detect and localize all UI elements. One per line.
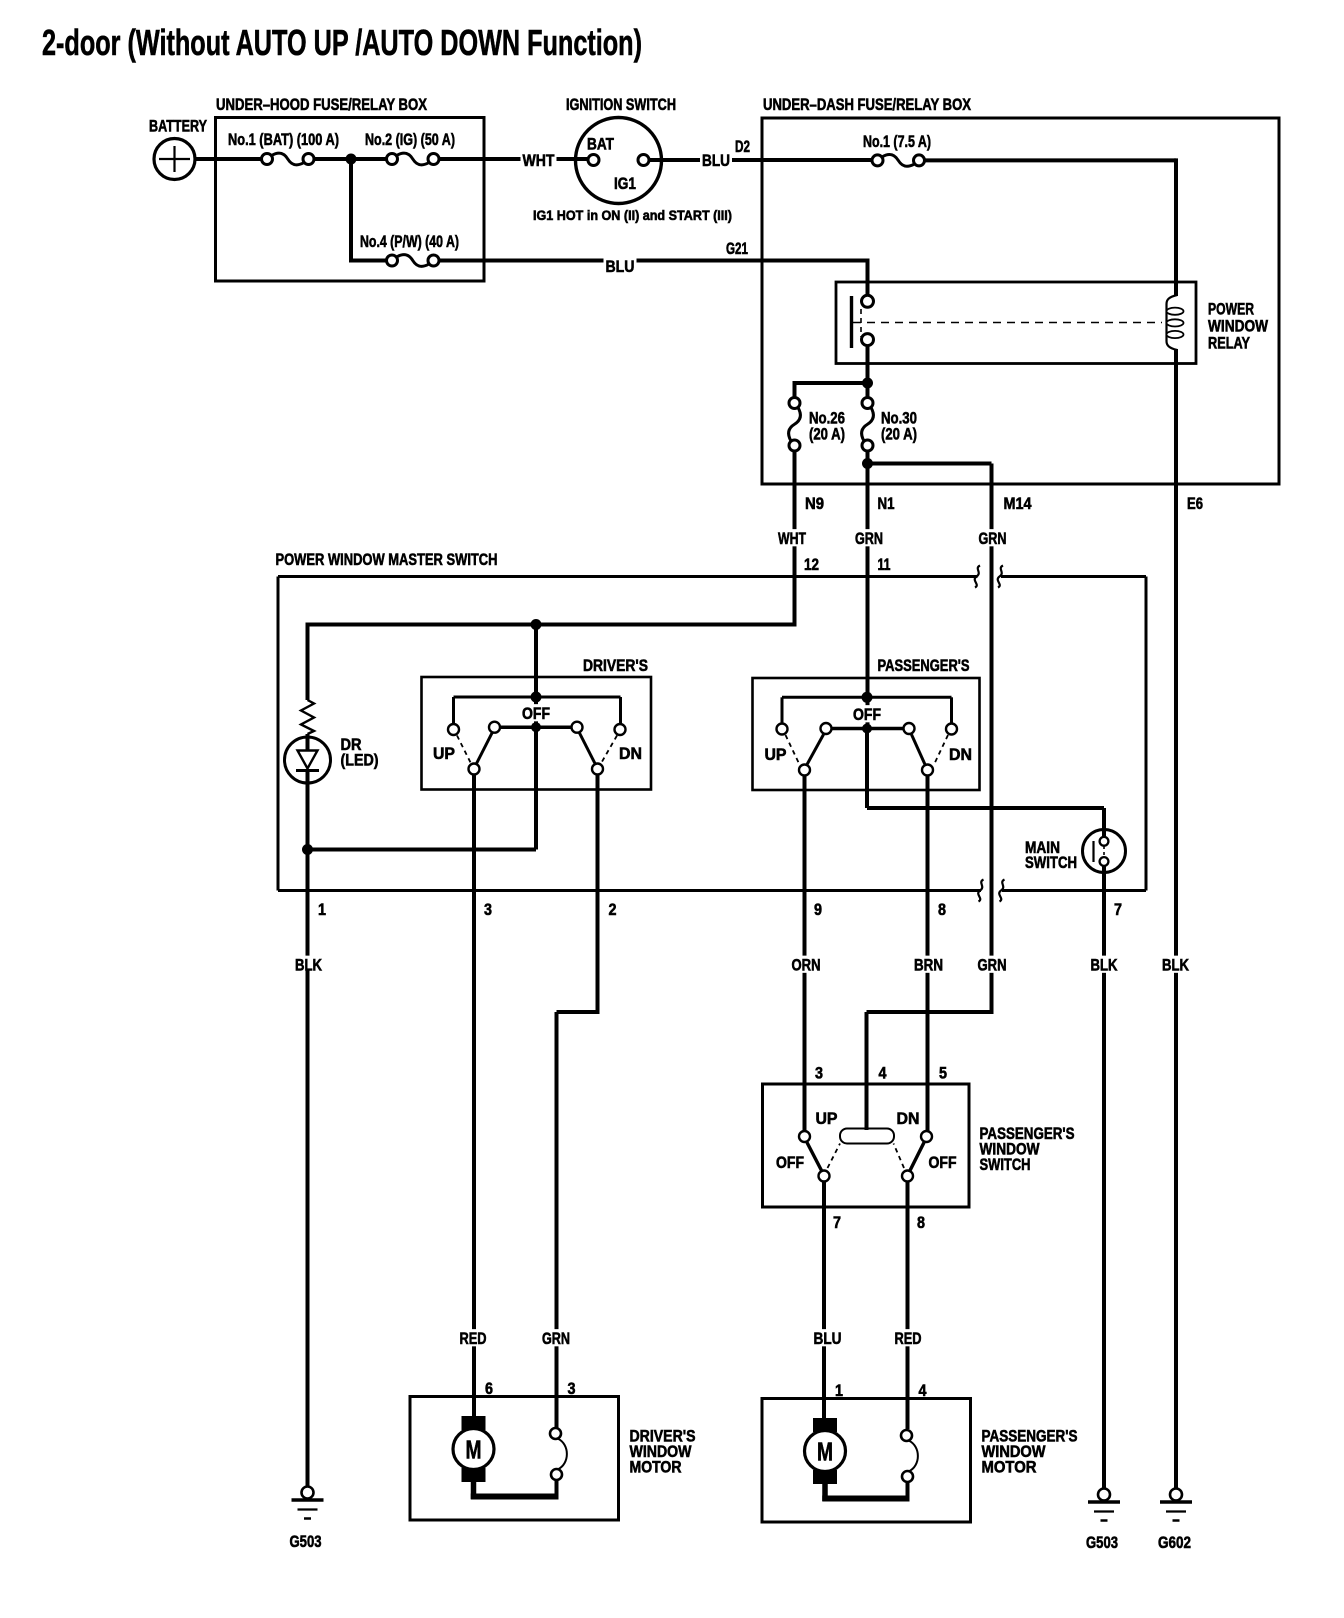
svg-text:4: 4 xyxy=(879,1065,888,1083)
svg-text:POWER WINDOW MASTER SWITCH: POWER WINDOW MASTER SWITCH xyxy=(276,551,498,569)
svg-text:BLK: BLK xyxy=(1091,957,1118,975)
svg-text:OFF: OFF xyxy=(929,1154,957,1172)
svg-text:M14: M14 xyxy=(1004,495,1033,513)
svg-text:SWITCH: SWITCH xyxy=(980,1156,1031,1174)
svg-text:OFF: OFF xyxy=(522,705,550,723)
svg-text:7: 7 xyxy=(1114,901,1122,919)
svg-text:PASSENGER'S: PASSENGER'S xyxy=(878,657,970,675)
svg-text:UNDER–DASH FUSE/RELAY BOX: UNDER–DASH FUSE/RELAY BOX xyxy=(763,96,971,114)
svg-text:G602: G602 xyxy=(1158,1534,1191,1552)
svg-text:DN: DN xyxy=(949,746,972,764)
svg-text:BLK: BLK xyxy=(1162,957,1189,975)
svg-text:UNDER–HOOD FUSE/RELAY BOX: UNDER–HOOD FUSE/RELAY BOX xyxy=(216,96,427,114)
svg-text:E6: E6 xyxy=(1187,495,1203,513)
svg-text:POWER: POWER xyxy=(1208,301,1254,319)
svg-text:(LED): (LED) xyxy=(341,752,379,770)
svg-text:UP: UP xyxy=(765,746,787,764)
svg-text:DN: DN xyxy=(897,1110,920,1128)
svg-text:M: M xyxy=(817,1437,833,1467)
svg-text:GRN: GRN xyxy=(979,530,1007,548)
svg-text:IG1: IG1 xyxy=(614,175,636,193)
svg-text:No.1 (BAT) (100 A): No.1 (BAT) (100 A) xyxy=(228,131,339,149)
svg-text:BAT: BAT xyxy=(587,136,614,154)
svg-text:12: 12 xyxy=(804,556,819,574)
svg-text:2: 2 xyxy=(609,901,617,919)
svg-text:WHT: WHT xyxy=(778,530,806,548)
svg-text:BLU: BLU xyxy=(702,152,730,170)
svg-text:9: 9 xyxy=(814,901,822,919)
svg-text:3: 3 xyxy=(815,1065,823,1083)
svg-text:WHT: WHT xyxy=(523,152,555,170)
svg-text:DRIVER'S: DRIVER'S xyxy=(583,657,648,675)
svg-text:M: M xyxy=(466,1435,482,1465)
svg-text:No.1 (7.5 A): No.1 (7.5 A) xyxy=(863,133,931,151)
svg-text:1: 1 xyxy=(835,1382,843,1400)
svg-text:5: 5 xyxy=(939,1065,947,1083)
svg-text:IG1 HOT in ON (II) and START (: IG1 HOT in ON (II) and START (III) xyxy=(533,207,732,223)
svg-text:BATTERY: BATTERY xyxy=(149,118,207,136)
svg-text:N9: N9 xyxy=(805,495,824,513)
svg-text:3: 3 xyxy=(568,1380,576,1398)
svg-text:No.4 (P/W) (40 A): No.4 (P/W) (40 A) xyxy=(360,233,459,251)
svg-text:MOTOR: MOTOR xyxy=(982,1459,1037,1477)
svg-text:6: 6 xyxy=(485,1380,493,1398)
svg-text:8: 8 xyxy=(938,901,946,919)
svg-text:(20 A): (20 A) xyxy=(809,426,845,444)
svg-text:D2: D2 xyxy=(735,138,750,156)
svg-text:1: 1 xyxy=(318,901,326,919)
svg-text:N1: N1 xyxy=(878,495,895,513)
svg-text:RELAY: RELAY xyxy=(1208,335,1250,353)
svg-text:IGNITION SWITCH: IGNITION SWITCH xyxy=(566,96,676,114)
svg-text:BRN: BRN xyxy=(914,957,943,975)
svg-text:GRN: GRN xyxy=(542,1330,570,1348)
svg-text:(20 A): (20 A) xyxy=(881,426,917,444)
svg-text:3: 3 xyxy=(484,901,492,919)
svg-text:UP: UP xyxy=(816,1110,838,1128)
svg-text:2-door (Without AUTO UP /AUTO: 2-door (Without AUTO UP /AUTO DOWN Funct… xyxy=(42,22,642,63)
svg-text:BLU: BLU xyxy=(606,258,635,276)
svg-text:GRN: GRN xyxy=(855,530,883,548)
svg-text:4: 4 xyxy=(919,1382,928,1400)
svg-text:ORN: ORN xyxy=(792,957,821,975)
svg-text:RED: RED xyxy=(460,1330,487,1348)
svg-text:OFF: OFF xyxy=(853,706,881,724)
svg-text:G21: G21 xyxy=(726,240,748,258)
svg-text:DN: DN xyxy=(619,745,642,763)
svg-text:SWITCH: SWITCH xyxy=(1025,854,1077,872)
svg-text:WINDOW: WINDOW xyxy=(1208,318,1268,336)
svg-text:OFF: OFF xyxy=(776,1154,804,1172)
svg-text:No.2 (IG) (50 A): No.2 (IG) (50 A) xyxy=(365,131,455,149)
svg-text:G503: G503 xyxy=(290,1533,322,1551)
svg-text:RED: RED xyxy=(895,1330,922,1348)
svg-text:UP: UP xyxy=(433,745,455,763)
svg-text:GRN: GRN xyxy=(978,957,1007,975)
svg-text:MOTOR: MOTOR xyxy=(630,1459,682,1477)
svg-text:7: 7 xyxy=(833,1214,841,1232)
svg-text:BLU: BLU xyxy=(814,1330,842,1348)
svg-text:11: 11 xyxy=(878,556,891,574)
svg-text:G503: G503 xyxy=(1086,1534,1118,1552)
svg-text:8: 8 xyxy=(917,1214,925,1232)
